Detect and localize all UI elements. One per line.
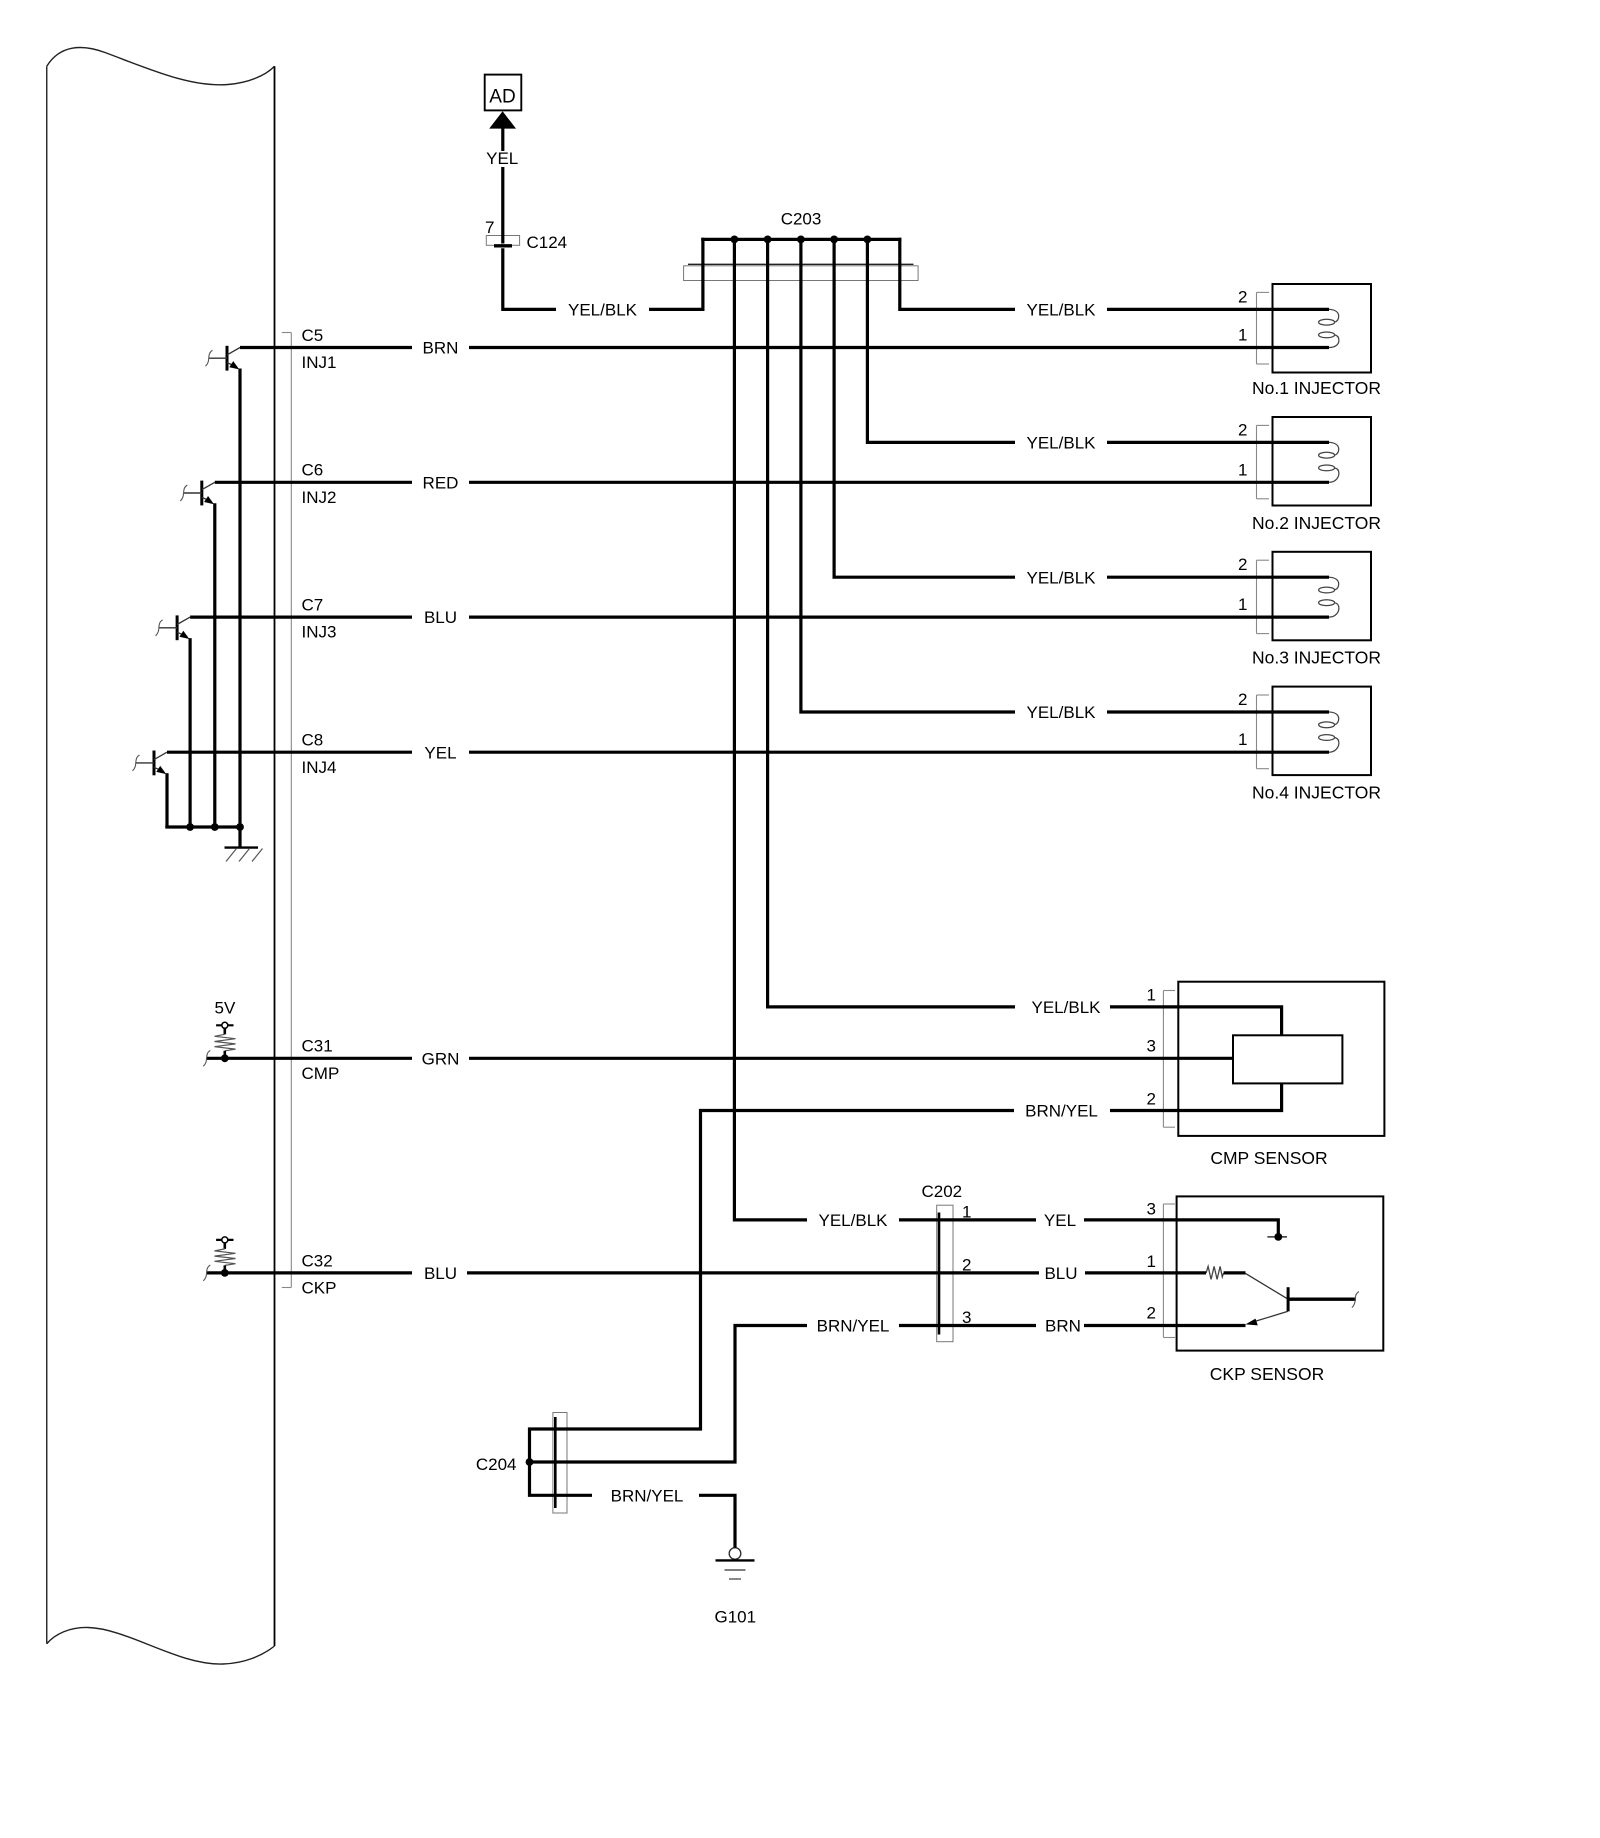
svg-text:INJ2: INJ2 — [302, 488, 337, 507]
svg-text:BLU: BLU — [424, 608, 457, 627]
svg-text:RED: RED — [423, 473, 459, 492]
svg-text:BRN: BRN — [423, 339, 459, 358]
svg-text:5V: 5V — [215, 999, 236, 1018]
svg-text:1: 1 — [1238, 460, 1247, 479]
svg-text:C5: C5 — [302, 326, 324, 345]
svg-text:2: 2 — [1238, 690, 1247, 709]
svg-text:1: 1 — [1238, 595, 1247, 614]
svg-text:BRN/YEL: BRN/YEL — [611, 1486, 684, 1505]
svg-text:2: 2 — [1238, 420, 1247, 439]
svg-text:BLU: BLU — [1044, 1264, 1077, 1283]
svg-text:INJ1: INJ1 — [302, 353, 337, 372]
svg-text:1: 1 — [1147, 985, 1156, 1004]
svg-text:7: 7 — [485, 218, 494, 237]
svg-text:GRN: GRN — [422, 1049, 460, 1068]
svg-text:YEL/BLK: YEL/BLK — [568, 301, 638, 320]
svg-text:CKP SENSOR: CKP SENSOR — [1210, 1364, 1324, 1384]
svg-text:YEL/BLK: YEL/BLK — [1032, 998, 1102, 1017]
svg-text:C7: C7 — [302, 596, 324, 615]
svg-text:INJ3: INJ3 — [302, 623, 337, 642]
svg-text:C6: C6 — [302, 461, 324, 480]
svg-text:BRN/YEL: BRN/YEL — [817, 1317, 890, 1336]
svg-text:2: 2 — [962, 1256, 971, 1275]
svg-text:C202: C202 — [922, 1182, 963, 1201]
svg-text:No.3 INJECTOR: No.3 INJECTOR — [1252, 648, 1381, 668]
svg-text:BRN: BRN — [1045, 1317, 1081, 1336]
svg-text:AD: AD — [489, 86, 515, 107]
svg-text:1: 1 — [1238, 730, 1247, 749]
svg-text:C32: C32 — [302, 1251, 333, 1270]
svg-text:3: 3 — [962, 1308, 971, 1327]
svg-text:No.1 INJECTOR: No.1 INJECTOR — [1252, 378, 1381, 398]
svg-text:2: 2 — [1238, 555, 1247, 574]
svg-text:C203: C203 — [781, 210, 822, 229]
svg-text:YEL: YEL — [1044, 1211, 1076, 1230]
svg-text:2: 2 — [1147, 1303, 1156, 1322]
svg-text:No.2 INJECTOR: No.2 INJECTOR — [1252, 513, 1381, 533]
svg-text:YEL: YEL — [486, 149, 518, 168]
svg-text:C8: C8 — [302, 731, 324, 750]
svg-text:1: 1 — [962, 1203, 971, 1222]
svg-text:YEL/BLK: YEL/BLK — [1027, 434, 1097, 453]
svg-text:G101: G101 — [715, 1608, 757, 1627]
svg-text:INJ4: INJ4 — [302, 758, 337, 777]
svg-text:3: 3 — [1147, 1037, 1156, 1056]
svg-text:YEL/BLK: YEL/BLK — [1027, 301, 1097, 320]
svg-text:CMP: CMP — [302, 1064, 340, 1083]
svg-text:C31: C31 — [302, 1037, 333, 1056]
svg-text:YEL/BLK: YEL/BLK — [1027, 703, 1097, 722]
svg-text:CMP SENSOR: CMP SENSOR — [1210, 1148, 1327, 1168]
svg-text:C124: C124 — [527, 233, 568, 252]
svg-text:YEL: YEL — [424, 743, 456, 762]
svg-text:BLU: BLU — [424, 1264, 457, 1283]
svg-text:YEL/BLK: YEL/BLK — [1027, 568, 1097, 587]
svg-text:YEL/BLK: YEL/BLK — [819, 1211, 889, 1230]
svg-text:BRN/YEL: BRN/YEL — [1025, 1102, 1098, 1121]
svg-text:C204: C204 — [476, 1455, 517, 1474]
svg-text:CKP: CKP — [302, 1279, 337, 1298]
svg-text:1: 1 — [1238, 326, 1247, 345]
svg-text:2: 2 — [1147, 1089, 1156, 1108]
svg-text:2: 2 — [1238, 287, 1247, 306]
svg-text:1: 1 — [1147, 1252, 1156, 1271]
svg-text:No.4 INJECTOR: No.4 INJECTOR — [1252, 783, 1381, 803]
svg-text:3: 3 — [1147, 1200, 1156, 1219]
